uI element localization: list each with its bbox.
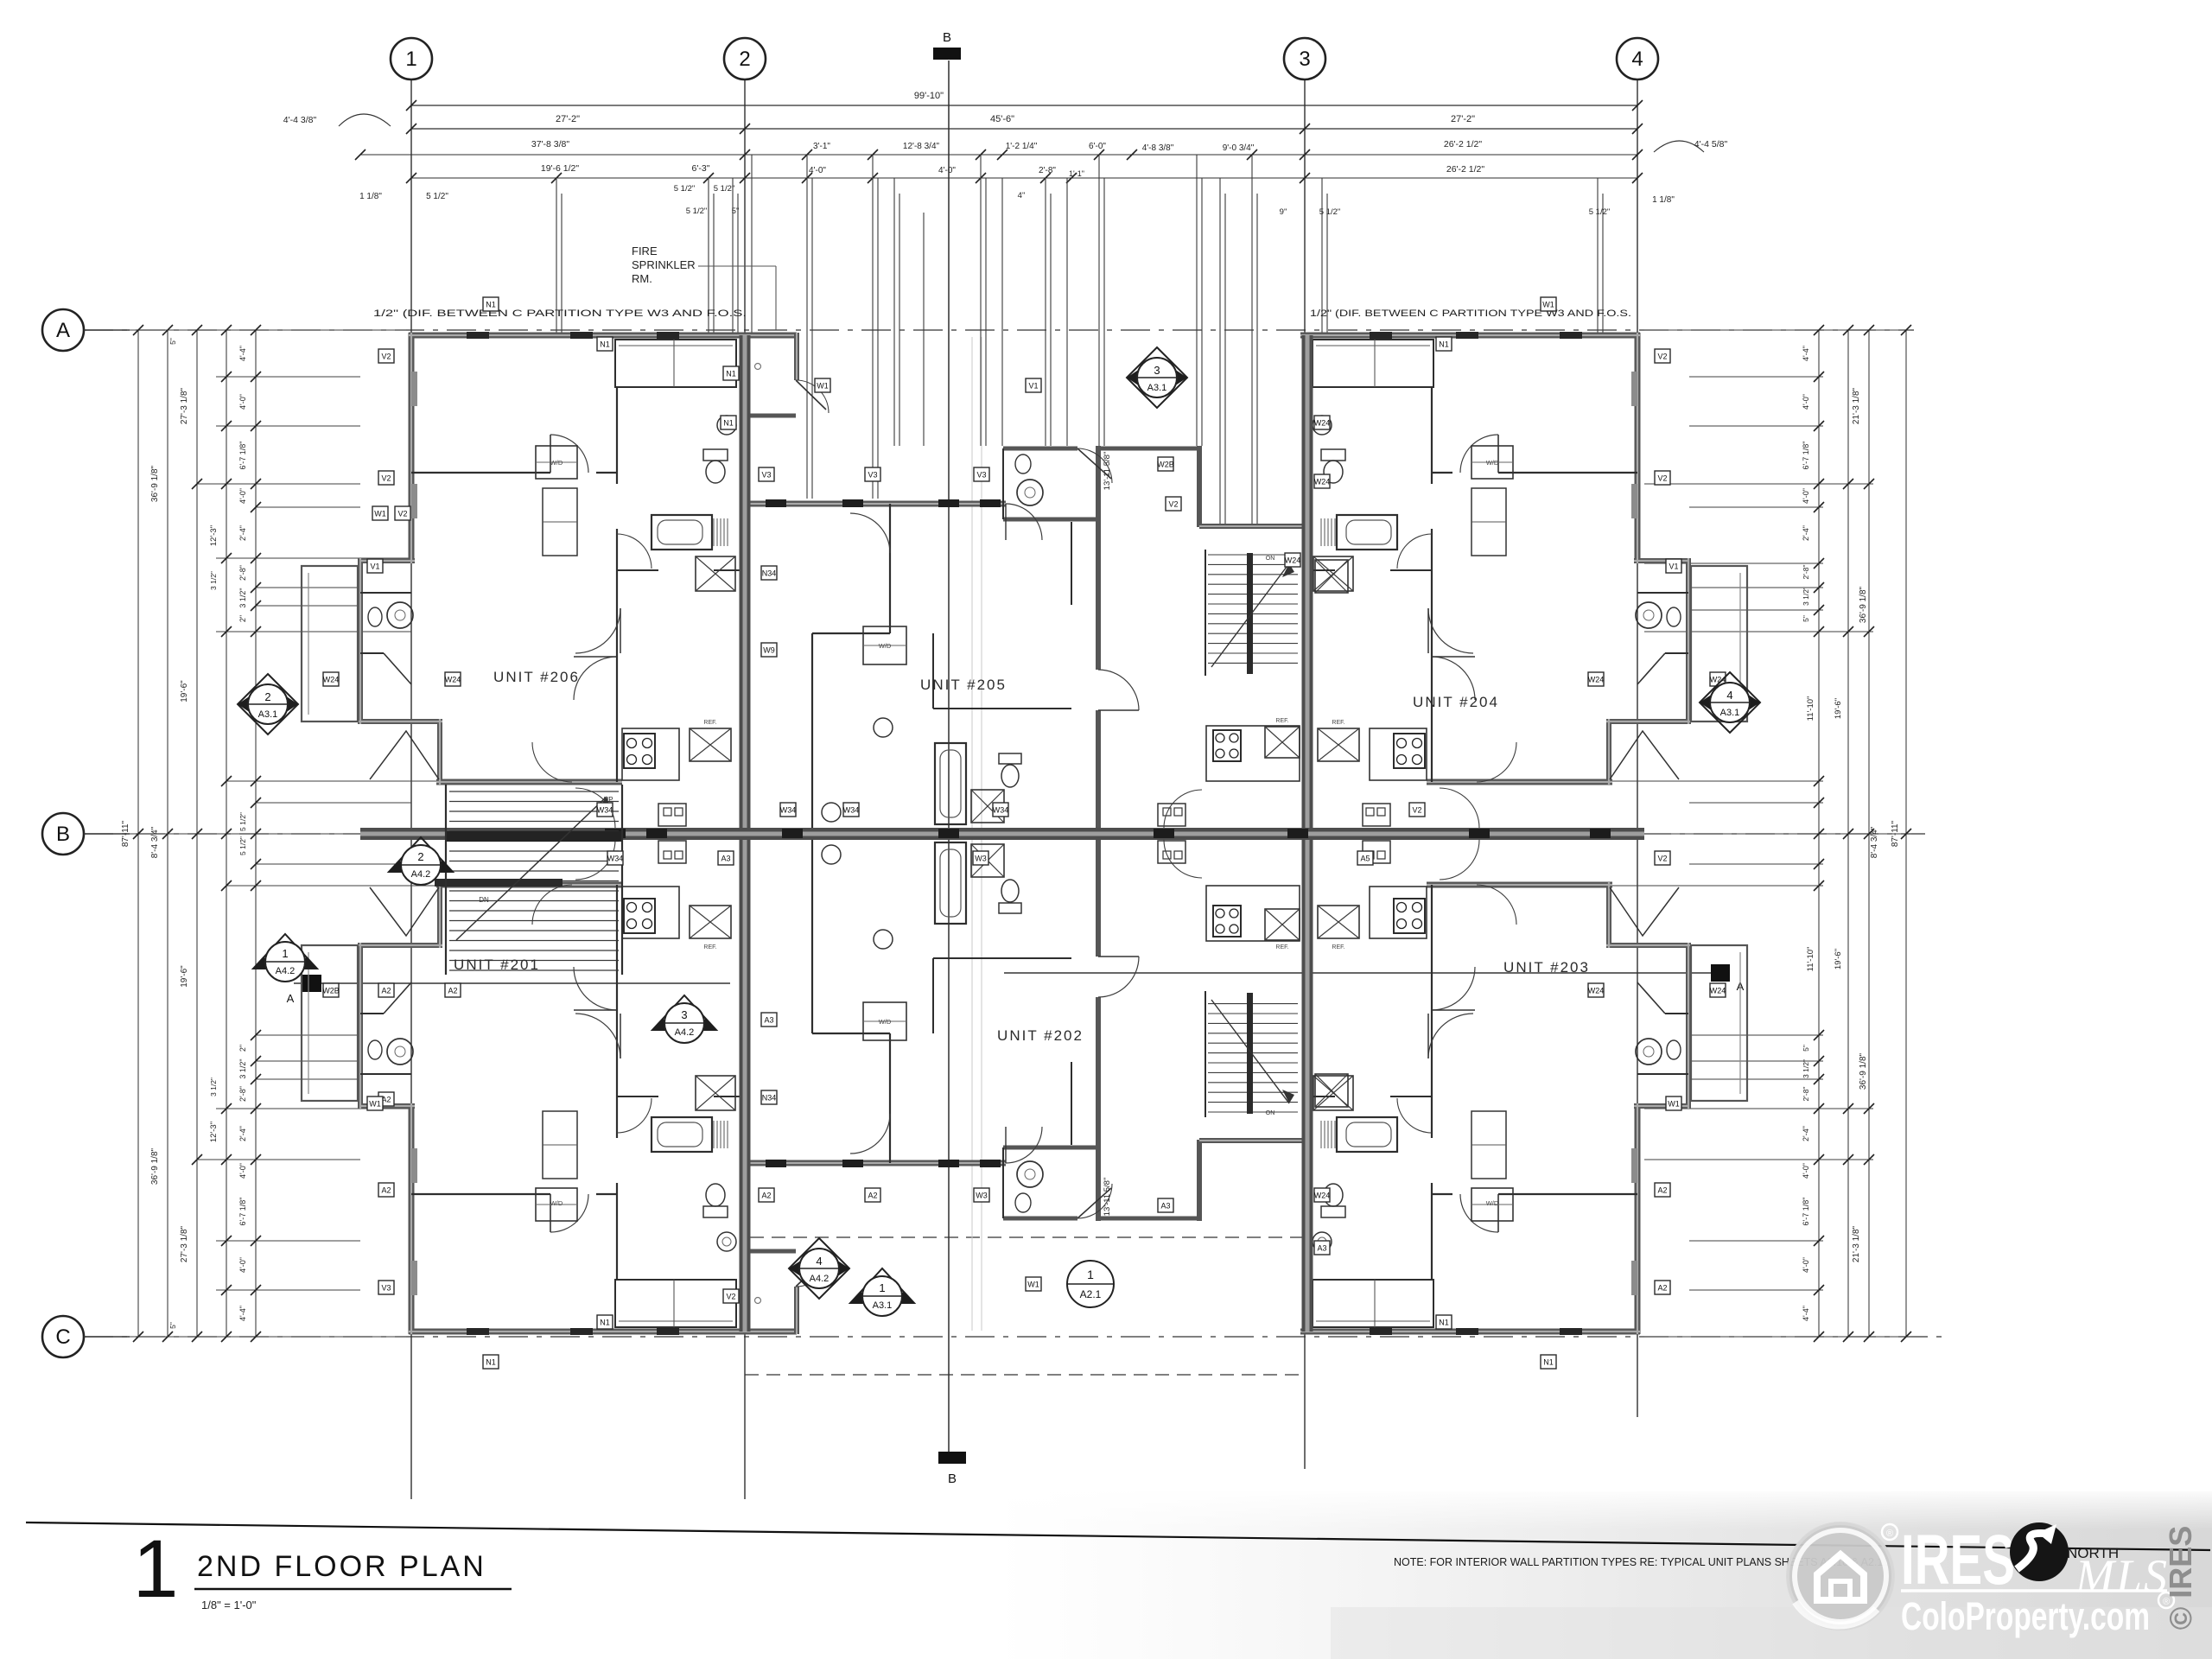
svg-text:W1: W1 (374, 510, 386, 518)
svg-text:5 1/2": 5 1/2" (686, 207, 708, 216)
svg-text:REF.: REF. (703, 720, 716, 726)
svg-text:4'-0": 4'-0" (238, 1257, 247, 1273)
svg-text:V2: V2 (1657, 353, 1667, 361)
svg-text:W/D: W/D (879, 642, 892, 650)
svg-text:W/D: W/D (550, 459, 563, 467)
svg-text:2'-4": 2'-4" (1802, 525, 1810, 541)
svg-text:4'-4": 4'-4" (238, 346, 247, 361)
svg-text:3 1/2": 3 1/2" (238, 588, 247, 607)
svg-text:W34: W34 (607, 855, 624, 863)
left stair landing bar (446, 831, 622, 842)
svg-text:13'-11 5/8": 13'-11 5/8" (1103, 452, 1112, 491)
svg-text:4'-4": 4'-4" (1802, 1306, 1810, 1321)
svg-text:UNIT #201: UNIT #201 (454, 957, 540, 973)
svg-text:3: 3 (1154, 364, 1160, 377)
grid B door headers (605, 829, 626, 838)
grid bubble 1 (391, 38, 432, 79)
IRES logo circle (1787, 1522, 1894, 1630)
svg-text:5": 5" (168, 1322, 177, 1329)
svg-text:99'-10": 99'-10" (914, 91, 944, 101)
svg-text:36'-9 1/8": 36'-9 1/8" (150, 1147, 160, 1185)
svg-text:RM.: RM. (632, 272, 652, 285)
svg-text:FIRE: FIRE (632, 245, 658, 257)
svg-text:6'-7 1/8": 6'-7 1/8" (1802, 442, 1810, 470)
svg-text:1/2" (DIF. BETWEEN C PARTITION: 1/2" (DIF. BETWEEN C PARTITION TYPE W3 A… (373, 308, 747, 319)
top dimension line 4 (411, 177, 745, 179)
svg-text:A2: A2 (381, 1186, 391, 1195)
svg-text:A2: A2 (1657, 1284, 1667, 1293)
svg-text:UNIT #204: UNIT #204 (1413, 694, 1499, 710)
left stair run line (456, 797, 607, 940)
marker 3/A4.2 (652, 995, 716, 1030)
svg-text:3 1/2": 3 1/2" (238, 1058, 247, 1078)
svg-text:8'-4 3/4": 8'-4 3/4" (150, 826, 160, 858)
svg-text:9'-0 3/4": 9'-0 3/4" (1223, 143, 1255, 153)
section line A-A left (294, 982, 730, 984)
svg-text:3 1/2": 3 1/2" (1802, 587, 1810, 606)
grid line 1 (410, 79, 412, 1499)
svg-text:W1: W1 (817, 382, 829, 391)
svg-text:A2: A2 (448, 987, 457, 995)
rule under IRES (1901, 1589, 2167, 1592)
svg-text:W24: W24 (1285, 556, 1301, 565)
section line A-A right (1004, 972, 1728, 974)
svg-text:8'-4 3/4": 8'-4 3/4" (1870, 826, 1879, 858)
grid line B (dash-dot) right (1642, 833, 1925, 835)
right stair lower (mirror) (1205, 991, 1298, 1117)
svg-text:A2: A2 (868, 1192, 877, 1200)
svg-text:87'-11": 87'-11" (1891, 820, 1900, 847)
grid B doorway arcs (575, 788, 615, 828)
svg-text:W24: W24 (445, 676, 461, 684)
unit 201 geometry (mirror) (302, 841, 748, 1335)
svg-text:4": 4" (1018, 191, 1026, 200)
svg-text:2'-8": 2'-8" (238, 1086, 247, 1102)
svg-text:ColoProperty.com: ColoProperty.com (1901, 1594, 2150, 1638)
svg-text:2": 2" (238, 615, 247, 622)
svg-text:UNIT #203: UNIT #203 (1503, 959, 1590, 976)
svg-text:W3: W3 (975, 855, 987, 863)
svg-text:5": 5" (1802, 1045, 1810, 1052)
svg-text:UNIT #206: UNIT #206 (493, 669, 580, 685)
svg-text:3 1/2": 3 1/2" (1802, 1059, 1810, 1078)
top extension lines (556, 178, 557, 333)
svg-text:ON: ON (1266, 556, 1275, 562)
svg-text:4'-0": 4'-0" (238, 488, 247, 504)
svg-text:19'-6": 19'-6" (1834, 949, 1843, 969)
svg-text:W1: W1 (369, 1100, 381, 1109)
svg-text:W34: W34 (993, 806, 1009, 815)
unit 205 geometry (741, 333, 1348, 831)
svg-text:A2: A2 (1657, 1186, 1667, 1195)
svg-text:4'-0": 4'-0" (1802, 394, 1810, 410)
svg-text:4'-8 3/8": 4'-8 3/8" (1142, 143, 1174, 153)
svg-text:2: 2 (264, 690, 270, 703)
svg-text:6'-0": 6'-0" (1089, 142, 1106, 151)
svg-text:6'-7 1/8": 6'-7 1/8" (238, 442, 247, 470)
svg-text:N1: N1 (486, 1358, 496, 1367)
grid line C (dash-dot) (84, 1336, 1946, 1338)
svg-text:V3: V3 (976, 471, 986, 480)
svg-text:11'-10": 11'-10" (1806, 947, 1815, 972)
svg-text:4'-4 3/8": 4'-4 3/8" (283, 115, 317, 125)
svg-text:B: B (943, 30, 951, 45)
svg-text:A2: A2 (381, 987, 391, 995)
grid line B (dash-dot) left (84, 833, 363, 835)
svg-text:W24: W24 (1588, 987, 1605, 995)
svg-text:27'-3 1/8": 27'-3 1/8" (180, 387, 189, 424)
svg-text:V2: V2 (381, 353, 391, 361)
svg-text:12'-8 3/4": 12'-8 3/4" (903, 142, 940, 151)
marker 4/A4.2 (789, 1238, 849, 1299)
svg-text:REF.: REF. (1275, 944, 1288, 950)
svg-text:4: 4 (1631, 48, 1643, 71)
svg-text:A3: A3 (721, 855, 730, 863)
svg-text:W24: W24 (1314, 1192, 1331, 1200)
svg-text:V2: V2 (1412, 806, 1421, 815)
svg-text:3: 3 (1299, 48, 1310, 71)
svg-text:A4.2: A4.2 (276, 966, 296, 976)
svg-text:V3: V3 (381, 1284, 391, 1293)
svg-text:A: A (287, 992, 295, 1005)
svg-text:1: 1 (282, 947, 288, 960)
svg-text:3 1/2": 3 1/2" (209, 1077, 218, 1096)
svg-text:N1: N1 (723, 419, 734, 428)
svg-text:5": 5" (1802, 615, 1810, 622)
svg-text:1: 1 (1087, 1268, 1094, 1281)
wall type label boxes (378, 349, 394, 363)
svg-text:2'-4": 2'-4" (238, 525, 247, 541)
svg-text:V3: V3 (761, 471, 771, 480)
svg-text:N1: N1 (600, 1319, 610, 1327)
svg-text:4: 4 (1726, 689, 1732, 702)
top dimension line 2 (411, 128, 1637, 130)
svg-text:1'-2 1/4": 1'-2 1/4" (1006, 142, 1038, 151)
svg-text:37'-8 3/8": 37'-8 3/8" (531, 139, 570, 149)
svg-text:W/D: W/D (1486, 459, 1499, 467)
svg-text:W9: W9 (763, 646, 775, 655)
section marker B top (933, 48, 961, 60)
grid bubble 4 (1617, 38, 1658, 79)
svg-text:A5: A5 (1360, 855, 1370, 863)
svg-text:A: A (56, 319, 70, 342)
party wall grid 2 (740, 335, 751, 1332)
svg-text:2'-4": 2'-4" (238, 1126, 247, 1141)
marker 2/A4.2 (389, 837, 453, 872)
svg-text:V2: V2 (1657, 855, 1667, 863)
svg-text:2: 2 (739, 48, 750, 71)
svg-text:2'-8": 2'-8" (238, 565, 247, 581)
svg-text:11'-10": 11'-10" (1806, 696, 1815, 721)
section line B-B (948, 60, 950, 1452)
svg-text:6'-7 1/8": 6'-7 1/8" (1802, 1198, 1810, 1226)
svg-text:A3.1: A3.1 (258, 709, 278, 720)
svg-text:A3.1: A3.1 (1720, 708, 1740, 718)
svg-text:12'-3": 12'-3" (209, 525, 219, 546)
svg-text:1 1/8": 1 1/8" (1652, 195, 1675, 205)
patio dashed line lower-mid (745, 1374, 1303, 1376)
svg-text:N1: N1 (1543, 1358, 1554, 1367)
svg-text:SPRINKLER: SPRINKLER (632, 258, 696, 271)
svg-text:6'-7 1/8": 6'-7 1/8" (238, 1198, 247, 1226)
svg-text:A3: A3 (1160, 1202, 1170, 1211)
svg-text:21'-3 1/8": 21'-3 1/8" (1852, 1225, 1861, 1262)
svg-text:4'-0": 4'-0" (809, 166, 826, 175)
svg-text:W2B: W2B (322, 987, 340, 995)
svg-text:REF.: REF. (1332, 720, 1344, 726)
svg-text:N1: N1 (1439, 1319, 1449, 1327)
svg-text:3'-1": 3'-1" (813, 142, 830, 151)
corridor wall grid B (360, 828, 1644, 840)
svg-text:W1: W1 (1027, 1281, 1039, 1289)
party wall grid 3 (1302, 335, 1313, 1332)
svg-text:A3.1: A3.1 (873, 1300, 893, 1311)
right dimension verticals (1818, 330, 1820, 1337)
svg-text:W34: W34 (780, 806, 797, 815)
svg-text:1: 1 (405, 48, 416, 71)
svg-text:5 1/2": 5 1/2" (238, 836, 247, 855)
marker 1/A2.1 (1067, 1261, 1114, 1307)
left stair second bar (435, 879, 563, 887)
svg-text:N1: N1 (726, 370, 736, 378)
grid bubble C (42, 1316, 84, 1357)
svg-text:2ND FLOOR PLAN: 2ND FLOOR PLAN (197, 1550, 486, 1583)
top dimension line 3 (360, 154, 1637, 156)
grid bubble 3 (1284, 38, 1325, 79)
patio dashed line upper-mid (750, 1236, 1303, 1238)
svg-text:19'-6": 19'-6" (180, 965, 189, 988)
svg-text:87'-11": 87'-11" (121, 820, 130, 847)
svg-text:19'-6 1/2": 19'-6 1/2" (541, 163, 580, 174)
svg-text:1 1/8": 1 1/8" (359, 192, 382, 201)
bottom separation rule (sloped scan) (26, 1522, 2210, 1550)
svg-text:REF.: REF. (1332, 944, 1344, 950)
svg-text:A2.1: A2.1 (1080, 1288, 1102, 1300)
unit 204 geometry (mirror) (1300, 332, 1747, 826)
svg-text:V2: V2 (381, 474, 391, 483)
svg-text:26'-2 1/2": 26'-2 1/2" (1444, 139, 1483, 149)
svg-text:5 1/2": 5 1/2" (674, 184, 696, 194)
svg-text:2'-4": 2'-4" (1802, 1126, 1810, 1141)
svg-text:W/D: W/D (1486, 1199, 1499, 1207)
svg-text:5 1/2": 5 1/2" (426, 192, 448, 201)
svg-text:W34: W34 (597, 806, 613, 815)
svg-text:REF.: REF. (703, 944, 716, 950)
IRES house glyph (1817, 1554, 1864, 1600)
left stair treads (449, 791, 619, 792)
svg-text:W24: W24 (1314, 419, 1331, 428)
grid line A (dash-dot) (84, 329, 1914, 331)
svg-text:®: ® (1886, 1529, 1893, 1539)
right stair upper (1205, 550, 1298, 676)
svg-text:2'-8": 2'-8" (1802, 565, 1810, 580)
svg-text:V1: V1 (1669, 563, 1678, 571)
svg-text:B: B (56, 823, 70, 846)
svg-text:N1: N1 (486, 301, 496, 309)
svg-text:4'-0": 4'-0" (1802, 1257, 1810, 1273)
svg-text:13'-11 5/8": 13'-11 5/8" (1103, 1178, 1112, 1217)
svg-text:19'-6": 19'-6" (180, 680, 189, 702)
section marker B bottom (938, 1452, 966, 1464)
svg-text:W24: W24 (1314, 478, 1331, 486)
svg-text:ON: ON (1266, 1110, 1275, 1116)
svg-text:4'-0": 4'-0" (238, 1163, 247, 1179)
svg-text:12'-3": 12'-3" (209, 1122, 219, 1142)
svg-text:N34: N34 (762, 1094, 777, 1103)
svg-text:A4.2: A4.2 (810, 1274, 829, 1284)
svg-text:UNIT #202: UNIT #202 (997, 1027, 1084, 1044)
unit 206 geometry (302, 332, 748, 826)
left dimension verticals (137, 330, 139, 1337)
registered mark (1882, 1524, 1897, 1540)
svg-text:1'-1": 1'-1" (1069, 169, 1084, 178)
top dimension line 99ft-10 (411, 105, 1637, 106)
svg-text:5": 5" (168, 338, 177, 345)
svg-text:V2: V2 (726, 1293, 735, 1301)
svg-text:UNIT #205: UNIT #205 (920, 677, 1007, 693)
svg-text:A4.2: A4.2 (675, 1027, 695, 1038)
svg-text:N1: N1 (600, 340, 610, 349)
svg-text:B: B (948, 1471, 957, 1486)
right extension/tick lines (1644, 329, 1911, 331)
svg-text:V3: V3 (868, 471, 877, 480)
svg-text:6'-3": 6'-3" (692, 163, 710, 174)
grid line 3 (1304, 79, 1306, 1469)
svg-text:V1: V1 (370, 563, 379, 571)
svg-text:27'-2": 27'-2" (1451, 114, 1475, 124)
svg-text:4'-4": 4'-4" (1802, 346, 1810, 361)
svg-text:21'-3 1/8": 21'-3 1/8" (1852, 387, 1861, 424)
unit 202 geometry (mirror) (741, 836, 1348, 1334)
svg-text:1: 1 (879, 1281, 885, 1294)
svg-text:W1: W1 (1668, 1100, 1680, 1109)
svg-text:W24: W24 (1710, 987, 1726, 995)
svg-text:V2: V2 (1657, 474, 1667, 483)
svg-text:A3: A3 (1317, 1244, 1326, 1253)
svg-text:2: 2 (417, 850, 423, 863)
svg-text:A3.1: A3.1 (1147, 383, 1167, 393)
svg-text:36'-9 1/8": 36'-9 1/8" (1859, 1052, 1868, 1090)
svg-text:W24: W24 (323, 676, 340, 684)
left extension/tick lines (86, 329, 406, 331)
svg-text:4: 4 (816, 1255, 822, 1268)
light scan verticals (971, 337, 973, 1331)
svg-text:4'-4": 4'-4" (238, 1306, 247, 1321)
svg-text:V1: V1 (1028, 382, 1038, 391)
svg-text:A3: A3 (764, 1016, 773, 1025)
svg-text:4'-0": 4'-0" (1802, 488, 1810, 504)
svg-text:3 1/2": 3 1/2" (209, 571, 218, 590)
svg-text:4'-0": 4'-0" (1802, 1163, 1810, 1179)
grid line 2 (744, 79, 746, 1499)
grid line 4 (1637, 79, 1638, 1417)
grid bubble A (42, 309, 84, 351)
svg-text:N1: N1 (1439, 340, 1449, 349)
svg-text:C: C (55, 1325, 70, 1349)
svg-text:A4.2: A4.2 (411, 869, 431, 880)
svg-text:REF.: REF. (1275, 718, 1288, 724)
svg-text:36'-9 1/8": 36'-9 1/8" (150, 465, 160, 502)
svg-text:3: 3 (681, 1008, 687, 1021)
svg-text:W2B: W2B (1157, 461, 1174, 469)
svg-text:2": 2" (238, 1045, 247, 1052)
svg-text:4'-0": 4'-0" (238, 394, 247, 410)
svg-text:DN: DN (479, 896, 489, 904)
marker 1/A4.2 (253, 934, 317, 969)
north symbol (2010, 1522, 2069, 1581)
grid bubble B (42, 813, 84, 855)
svg-text:27'-3 1/8": 27'-3 1/8" (180, 1225, 189, 1262)
svg-text:36'-9 1/8": 36'-9 1/8" (1859, 586, 1868, 623)
svg-text:5 1/2": 5 1/2" (238, 812, 247, 831)
grid bubble 2 (724, 38, 766, 79)
svg-text:1/8" = 1'-0": 1/8" = 1'-0" (201, 1599, 257, 1611)
svg-text:4'-0": 4'-0" (938, 166, 956, 175)
unit 203 geometry (mirror) (1300, 841, 1747, 1335)
marker 4/A3.1 (1700, 672, 1760, 733)
svg-text:© IRES: © IRES (2163, 1526, 2198, 1630)
svg-text:W24: W24 (1588, 676, 1605, 684)
svg-text:A2: A2 (761, 1192, 771, 1200)
left stair side walls (445, 785, 447, 975)
svg-text:2'-8": 2'-8" (1039, 166, 1056, 175)
svg-text:V2: V2 (397, 510, 407, 518)
svg-text:2'-8": 2'-8" (1802, 1087, 1810, 1102)
marker 2/A3.1 (238, 674, 298, 734)
svg-text:W1: W1 (1542, 301, 1554, 309)
svg-text:5 1/2": 5 1/2" (1589, 207, 1611, 217)
svg-text:IRES: IRES (1901, 1521, 2015, 1599)
marker 1/A3.1 (850, 1268, 914, 1303)
svg-text:19'-6": 19'-6" (1834, 698, 1843, 719)
svg-text:W/D: W/D (879, 1018, 892, 1026)
svg-text:5 1/2": 5 1/2" (714, 184, 735, 194)
svg-text:27'-2": 27'-2" (556, 114, 580, 124)
svg-text:V2: V2 (1168, 500, 1178, 509)
marker 3/A3.1 (1127, 347, 1187, 408)
svg-text:N34: N34 (762, 569, 777, 578)
svg-text:W34: W34 (843, 806, 860, 815)
svg-text:26'-2 1/2": 26'-2 1/2" (1446, 164, 1485, 175)
svg-text:1: 1 (133, 1523, 179, 1615)
svg-text:45'-6": 45'-6" (990, 114, 1014, 124)
svg-text:1/2" (DIF. BETWEEN C PARTITION: 1/2" (DIF. BETWEEN C PARTITION TYPE W3 A… (1310, 308, 1631, 319)
svg-text:9": 9" (1280, 207, 1287, 217)
svg-text:W/D: W/D (550, 1199, 563, 1207)
svg-text:W3: W3 (976, 1192, 988, 1200)
